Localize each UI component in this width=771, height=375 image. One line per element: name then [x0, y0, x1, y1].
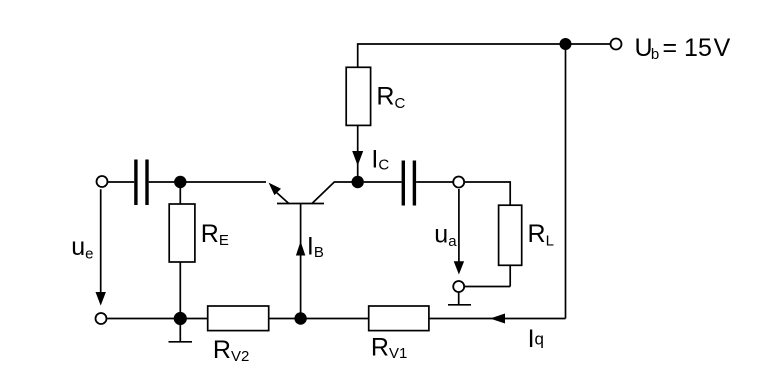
svg-text:Ub= 15V: Ub= 15V	[635, 34, 731, 63]
